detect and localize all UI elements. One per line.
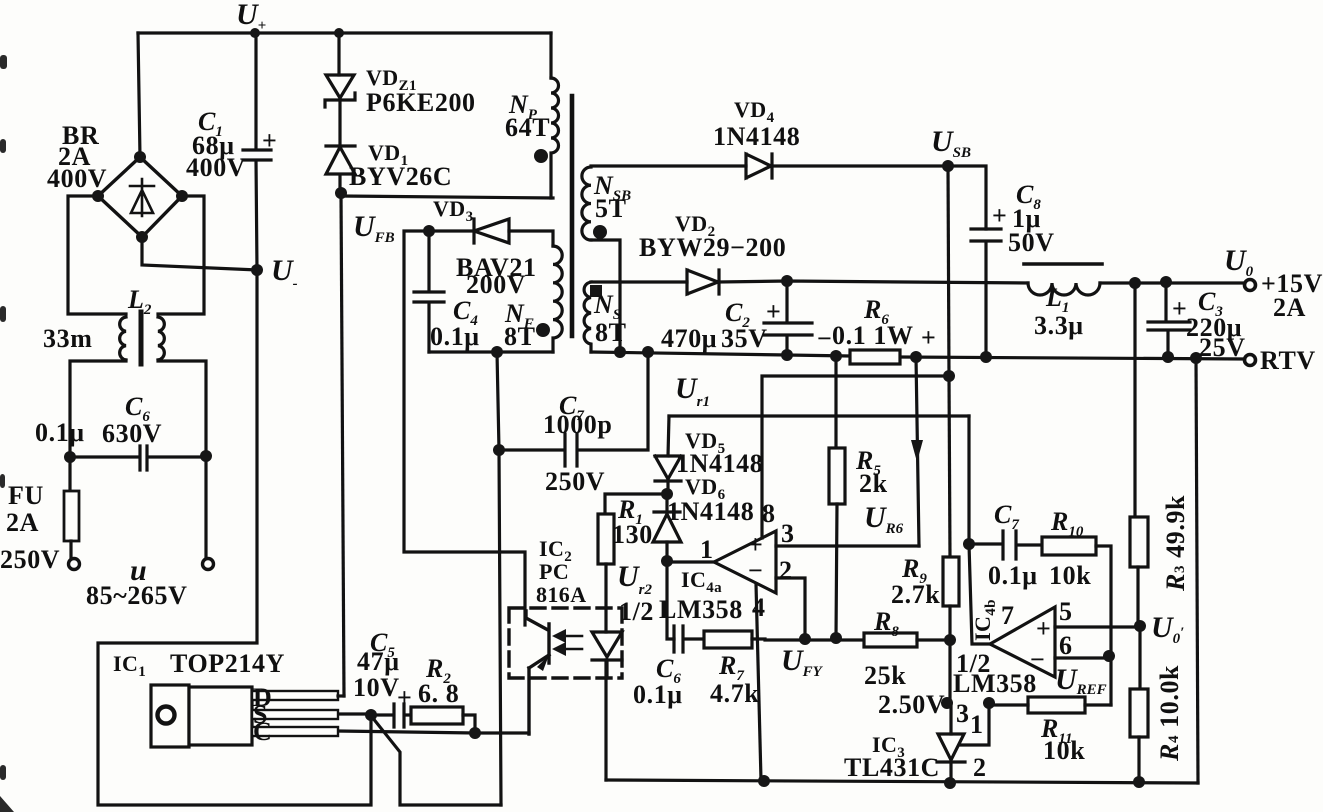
node bridge left [92, 190, 104, 202]
node V+ supply [943, 370, 955, 382]
svg-text:400V: 400V [47, 164, 107, 193]
inductor L2 right winding [158, 317, 164, 360]
wire UFB node stub and column [404, 231, 525, 625]
wire L2 left bottom to C6 node [70, 361, 126, 457]
node R5 UFY [830, 632, 842, 644]
svg-text:2A: 2A [1273, 293, 1306, 322]
svg-text:25k: 25k [864, 661, 906, 690]
svg-text:250V: 250V [0, 545, 60, 574]
wire U- rail down and around TOP214Y loop [98, 270, 371, 805]
transformer NP winding [551, 78, 559, 198]
inductor L1 winding [1028, 283, 1100, 295]
capacitor C5 plates [371, 704, 411, 727]
svg-text:250V: 250V [545, 467, 605, 496]
wire source diagonal jog to bottom [372, 717, 501, 805]
svg-text:+: + [748, 530, 763, 559]
resistor R9 box [943, 557, 959, 606]
node bottom R4 [1133, 776, 1145, 788]
wire R3 column top [1133, 283, 1136, 517]
wire VD6 to opamp output node [665, 542, 668, 561]
opto light arrows [556, 636, 582, 649]
node S pin [365, 709, 377, 721]
svg-text:2k: 2k [859, 469, 888, 498]
svg-text:BYW29−200: BYW29−200 [639, 233, 786, 262]
wire R1 tap [605, 494, 667, 514]
op-amp IC4a triangle [714, 531, 776, 593]
svg-text:130: 130 [612, 520, 653, 549]
wire L1 to +15V terminal [1100, 281, 1244, 284]
node bridge top [134, 151, 146, 163]
svg-text:6. 8: 6. 8 [418, 679, 459, 708]
node VD5 VD6 [661, 488, 673, 500]
capacitor C7 0.1u row and plates [969, 531, 1042, 559]
node C6 right [200, 450, 212, 462]
node U0 prime [1134, 620, 1146, 632]
svg-text:2.7k: 2.7k [891, 580, 940, 609]
transformer NSB winding [582, 167, 591, 240]
resistor R2 box [411, 707, 463, 724]
wire VD2 to C2 node and on to L1 [719, 281, 1028, 283]
node pin6 [1103, 650, 1115, 662]
wire secondary ground row [591, 352, 1245, 359]
wire LED cathode drop [604, 660, 607, 780]
TOP214Y body [189, 687, 252, 745]
diode VD4 1N4148 symbol [746, 154, 772, 178]
capacitor C3 leads and plates [1148, 282, 1190, 357]
zener VDz1 P6KE200 symbol [325, 75, 355, 107]
node TL431 ref [983, 697, 995, 709]
capacitor C7 1000p row and plates [499, 352, 648, 466]
wire R5 lower lead crossing pin3 row to UFY node [836, 504, 837, 638]
svg-text:LM358: LM358 [659, 595, 743, 624]
node VD1 bottom [335, 187, 347, 199]
svg-text:0.1 1W: 0.1 1W [832, 321, 914, 350]
wire LED cathode inside box [605, 660, 608, 678]
capacitor C8 plates and lead [971, 229, 1001, 356]
svg-text:4: 4 [752, 593, 765, 622]
wire NP top corner [549, 33, 552, 78]
output terminal +15V [1245, 280, 1256, 291]
svg-text:85~265V: 85~265V [86, 581, 188, 610]
node C6 left [64, 451, 76, 463]
svg-text:2A: 2A [6, 508, 39, 537]
diode VD6 1N4148 symbol [653, 494, 681, 542]
capacitor C4 leads and plates [414, 231, 444, 352]
AC terminal left [69, 559, 80, 570]
node C7b feedback [963, 538, 975, 550]
wire outer right column [1196, 358, 1198, 783]
wire R9 to R8 node [948, 606, 951, 640]
AC terminal right [203, 559, 214, 570]
opto arrowhead 1 [552, 629, 566, 643]
svg-text:2: 2 [779, 556, 792, 585]
svg-text:−: − [817, 324, 832, 353]
wire USB column upper [948, 166, 949, 376]
svg-text:+: + [921, 323, 936, 352]
svg-text:4.7k: 4.7k [710, 679, 759, 708]
node USB [942, 160, 954, 172]
opto LED symbol [592, 632, 622, 660]
capacitor C6 0.1u plates [674, 626, 704, 652]
svg-text:−: − [748, 556, 763, 585]
svg-text:2: 2 [973, 753, 986, 782]
svg-text:+: + [766, 297, 781, 326]
op-amp IC4b triangle [990, 607, 1055, 677]
wire S pin to node [338, 712, 371, 715]
wire R11 leads [989, 703, 1111, 706]
node C2 ground [781, 349, 793, 361]
node NF return [491, 346, 503, 358]
inductor L2 core [139, 312, 144, 364]
node NSB return [614, 346, 626, 358]
wire opamp output node to C6 [667, 561, 674, 639]
node pin2 [799, 633, 811, 645]
svg-text:7: 7 [1001, 601, 1014, 630]
wire R1 to LED anode [604, 564, 607, 632]
TOP214Y mounting hole [158, 707, 175, 724]
svg-text:50V: 50V [1008, 228, 1055, 257]
svg-text:0.1μ: 0.1μ [633, 680, 683, 709]
resistor R6 box [850, 350, 900, 364]
svg-text:33m: 33m [43, 324, 92, 353]
svg-text:1000p: 1000p [543, 410, 612, 439]
wire UR6 sense arrow column [916, 357, 919, 546]
svg-text:470μ: 470μ [661, 324, 717, 353]
svg-text:1: 1 [970, 710, 983, 739]
svg-text:3: 3 [956, 699, 969, 728]
svg-text:10k: 10k [1049, 561, 1091, 590]
node bottom TL431 [944, 777, 956, 789]
svg-text:+: + [992, 201, 1007, 230]
node +15V R3 [1129, 277, 1141, 289]
svg-text:8T: 8T [504, 322, 536, 351]
svg-text:FU: FU [8, 481, 44, 510]
wire R7 right lead [752, 637, 765, 640]
wire R8 right lead [917, 638, 950, 641]
wire VD5 anode lead [668, 416, 669, 456]
diode VD3 BAV21 symbol [429, 219, 509, 243]
resistor R10 box [1042, 537, 1096, 555]
wire IC4b pin6 row [1055, 656, 1111, 659]
wire drain column (VD1 node to D pin) [341, 193, 344, 696]
node TL431 cathode [941, 697, 953, 709]
node UFB [423, 225, 435, 237]
wire IC4a pin4 to bottom rail [756, 584, 761, 780]
node R6 right [910, 351, 922, 363]
svg-text:5: 5 [1059, 597, 1072, 626]
svg-text:816A: 816A [536, 582, 587, 607]
node U+ VDz1 [334, 28, 344, 38]
wire Ur1 top edge [669, 414, 969, 417]
TOP214Y pin C [252, 727, 338, 736]
resistor R8 box [864, 633, 917, 647]
svg-text:2.50V: 2.50V [878, 690, 945, 719]
opto phototransistor symbol [526, 611, 549, 663]
node +15V C3 [1160, 276, 1172, 288]
wire IC4a pin3 row [776, 544, 919, 547]
svg-text:BYV26C: BYV26C [349, 162, 452, 191]
scan noise left edge [0, 55, 7, 69]
TOP214Y pin S [252, 710, 338, 719]
wire right AC column to terminal [204, 456, 207, 557]
wire top U+ rail [138, 31, 551, 34]
svg-text:LM358: LM358 [953, 669, 1037, 698]
node C8 ground [980, 351, 992, 363]
wire V+ supply row to pin 8 [762, 376, 949, 538]
opto emitter arrowhead [537, 655, 549, 671]
node bottom UFY [758, 775, 770, 787]
wire bridge bottom to U- node [142, 237, 257, 270]
svg-text:6: 6 [1059, 631, 1072, 660]
svg-text:RTV: RTV [1260, 346, 1316, 375]
wire UFY row to R8 [765, 638, 864, 641]
wire feedback-return column x500 [497, 352, 501, 805]
node C pin R2 [469, 727, 481, 739]
svg-text:1: 1 [700, 535, 713, 564]
phase dot NS [590, 285, 602, 297]
node RTV right [1190, 352, 1202, 364]
fuse FU symbol [68, 457, 71, 491]
phase dot NSB [593, 225, 607, 239]
svg-text:35V: 35V [721, 324, 768, 353]
wire left drop to bridge [138, 33, 140, 157]
svg-text:3.3μ: 3.3μ [1034, 311, 1084, 340]
node C7 return [642, 346, 654, 358]
wire R5 column [834, 357, 837, 448]
node bridge bottom [136, 231, 148, 243]
svg-text:1N4148: 1N4148 [713, 122, 800, 151]
diode VD1 BYV26C symbol [326, 101, 355, 193]
wire VD3 to NF top [509, 231, 553, 246]
phase dot NF [536, 323, 550, 337]
svg-text:8: 8 [762, 499, 775, 528]
transformer NS winding [584, 282, 591, 352]
node U+ C1 [250, 28, 260, 38]
svg-text:0.1μ: 0.1μ [988, 561, 1038, 590]
wire U0' row to IC4b pin5 [1055, 625, 1140, 628]
wire R10 to feedback column [1096, 546, 1111, 705]
wire D pin to drain column [338, 694, 344, 697]
svg-text:1N4148: 1N4148 [667, 497, 754, 526]
wire VD1 node to NP bottom [341, 196, 553, 198]
wire TL431 ref hook [961, 703, 989, 745]
resistor R5 box [829, 448, 845, 504]
inductor L2 left winding [120, 317, 126, 360]
resistor R11 box [1028, 697, 1085, 713]
resistor R7 box [704, 631, 752, 648]
svg-text:10k: 10k [1043, 736, 1085, 765]
svg-text:3: 3 [781, 519, 794, 548]
transformer NF winding [553, 246, 562, 352]
wire TL431 cathode [949, 703, 952, 734]
wire bridge right AC lead [158, 196, 204, 314]
wire TL431 anode [949, 762, 952, 783]
node RTV C3 [1162, 351, 1174, 363]
output terminal RTV [1245, 355, 1256, 366]
shunt regulator IC3 TL431 symbol [937, 734, 965, 762]
capacitor C6 row and plates [70, 446, 206, 470]
node U- [251, 264, 263, 276]
node R8 right [944, 634, 956, 646]
transformer core [570, 96, 575, 336]
svg-text:TL431C: TL431C [844, 753, 940, 782]
node C7 1000p tap [493, 444, 505, 456]
node R6 left [830, 350, 842, 362]
UR6 arrowhead [911, 440, 923, 462]
svg-text:+: + [1172, 294, 1187, 323]
svg-text:47μ: 47μ [357, 647, 400, 676]
wire R2 right lead to C node [463, 715, 475, 733]
svg-text:630V: 630V [102, 419, 162, 448]
wire Ur1 right column to C7 node [967, 416, 970, 544]
svg-text:TOP214Y: TOP214Y [170, 649, 285, 678]
resistor R1 box [598, 514, 614, 564]
wire bottom secondary row [606, 780, 1198, 783]
inductor L1 core bar [1024, 262, 1102, 266]
svg-text:0.1μ: 0.1μ [35, 418, 85, 447]
phase dot NP [534, 149, 548, 163]
wire bridge left AC lead [68, 196, 126, 314]
svg-text:10V: 10V [353, 673, 400, 702]
TOP214Y IC1 package tab [151, 685, 189, 747]
wire R4 to bottom row [1137, 737, 1140, 782]
node IC4a output [661, 555, 673, 567]
capacitor C1 leads and plates [243, 33, 271, 270]
svg-text:+: + [262, 126, 277, 155]
svg-text:C: C [253, 717, 272, 746]
svg-text:+: + [397, 683, 412, 712]
wire VD5 to node [666, 481, 669, 494]
svg-text:P6KE200: P6KE200 [366, 88, 476, 117]
TOP214Y pin D [252, 691, 338, 700]
svg-text:R4 10.0k: R4 10.0k [1155, 665, 1184, 762]
wire NSB top to VD4 [591, 164, 746, 167]
wire R8 node to TL431 node [948, 640, 951, 703]
wire NS top to VD2 [591, 280, 687, 283]
wire IC4a output to node [667, 560, 714, 563]
wire IC4a pin2 drop [776, 578, 805, 640]
optocoupler IC2 dashed box [509, 608, 622, 678]
capacitor C2 leads and plates [764, 281, 812, 355]
wire U0' node to R4 [1138, 627, 1141, 689]
svg-text:8T: 8T [595, 318, 627, 347]
wire L2 right bottom to C6 right node [158, 361, 206, 456]
node VD2 C2 [781, 275, 793, 287]
svg-text:PC: PC [539, 559, 569, 584]
bridge rectifier BR diamond [98, 157, 182, 237]
bridge inner diode symbol [130, 179, 154, 216]
svg-text:64T: 64T [505, 113, 550, 142]
svg-text:0.1μ: 0.1μ [430, 322, 480, 351]
svg-text:R3 49.9k: R3 49.9k [1161, 495, 1190, 592]
svg-text:5T: 5T [595, 194, 627, 223]
wire C pin row to opto emitter [338, 731, 529, 733]
svg-text:200V: 200V [466, 270, 526, 299]
wire NF bottom row [429, 350, 553, 353]
node bridge right [176, 190, 188, 202]
wire USB column to R9 [949, 376, 950, 557]
svg-text:25V: 25V [1199, 333, 1246, 362]
zener VDz1 lead [337, 33, 340, 75]
svg-text:400V: 400V [186, 153, 246, 182]
wire NSB bottom drop [591, 240, 620, 352]
resistor R3 box [1130, 517, 1148, 567]
resistor R4 box [1130, 689, 1148, 737]
svg-text:+: + [1036, 614, 1051, 643]
wire IC4b output [969, 544, 990, 644]
wire R3 to U0' node [1136, 567, 1139, 627]
svg-text:1/2: 1/2 [619, 597, 654, 626]
opto arrowhead 2 [552, 642, 566, 656]
diode VD2 BYW29-200 symbol [687, 270, 719, 294]
diode VD5 1N4148 symbol [655, 456, 681, 481]
wire VD4 to USB node and C8 corner [772, 166, 986, 229]
